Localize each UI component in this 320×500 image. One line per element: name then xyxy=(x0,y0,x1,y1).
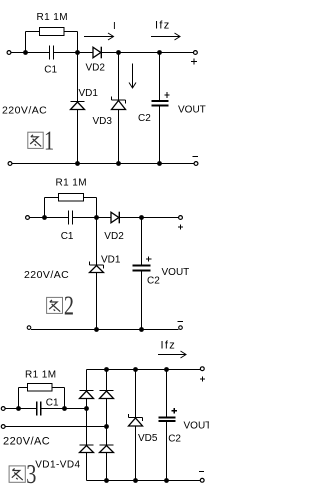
current arrow Ifz (circuit 3) xyxy=(158,351,186,358)
wire: top rail between C1 and VD2 (circuit 2) xyxy=(73,217,111,219)
terminal: top-right + output (circuit 2) xyxy=(179,216,183,220)
svg-text:VD2: VD2 xyxy=(104,231,124,242)
terminal: + output (circuit 3) xyxy=(200,367,204,371)
wire: input rail 2 (circuit 3) xyxy=(5,426,106,428)
svg-text:VD3: VD3 xyxy=(93,116,113,127)
node: C2 bottom on rail (circuit 3) xyxy=(164,478,169,483)
svg-text:1: 1 xyxy=(44,127,54,156)
label minus (circuit 2 output) xyxy=(178,321,183,323)
svg-text:VD1: VD1 xyxy=(79,88,99,99)
capacitor C1 (circuit 2) xyxy=(69,211,73,225)
wire: R1 branch left stub (circuit 2) xyxy=(45,198,59,218)
node: bridge right column input (circuit 3) xyxy=(104,424,109,429)
svg-text:VOUT: VOUT xyxy=(162,267,190,278)
terminal: AC input line 2 (circuit 3) xyxy=(1,425,5,429)
diode VD2 (circuit 1) xyxy=(93,47,101,59)
bridge diode VD2 top-right (circuit 3) xyxy=(100,370,114,427)
wire: top rail between C1 and VD2 (circuit 1) xyxy=(54,52,93,54)
svg-text:C1: C1 xyxy=(46,398,59,409)
svg-text:2: 2 xyxy=(64,292,74,321)
zener diode VD3 (circuit 1) xyxy=(112,53,126,164)
node A: R1/C1 left junction (circuit 1) xyxy=(23,50,28,55)
svg-text:Ifz: Ifz xyxy=(161,340,177,352)
current arrow Ifz (circuit 1) xyxy=(151,33,180,40)
terminal: bottom-right - output (circuit 2) xyxy=(179,326,183,330)
bridge diode VD3 bottom-left (circuit 3) xyxy=(80,445,94,481)
wire: top rail left segment (circuit 2) xyxy=(30,217,68,219)
svg-text:R1 1M: R1 1M xyxy=(25,370,56,381)
node: C2 bottom (circuit 1) xyxy=(157,161,162,166)
svg-text:R1 1M: R1 1M xyxy=(37,12,68,23)
node: C2 on top rail (circuit 3) xyxy=(164,367,169,372)
svg-text:I: I xyxy=(113,21,116,32)
bridge diode VD4 bottom-right (circuit 3) xyxy=(100,427,114,481)
svg-text:VOUT: VOUT xyxy=(184,421,210,432)
terminal: bottom-right - output (circuit 1) xyxy=(194,162,198,166)
wire: R1 branch right stub (circuit 2) xyxy=(84,198,97,218)
svg-text:C1: C1 xyxy=(61,231,74,242)
terminal: AC input line 1 (circuit 3) xyxy=(1,407,5,411)
wire: top output rail (circuit 3) xyxy=(87,369,201,371)
svg-text:Ifz: Ifz xyxy=(155,20,171,32)
wire: R1 branch left stub (circuit 1) xyxy=(26,32,40,53)
node: R1 right on rail 1 (circuit 3) xyxy=(62,406,67,411)
terminal: top-left AC input (circuit 2) xyxy=(26,216,30,220)
label + of C2 (circuit 3) xyxy=(172,408,177,413)
label + (circuit 2 output) xyxy=(178,224,183,229)
terminal: - output (circuit 3) xyxy=(200,478,204,482)
figure label 图2 xyxy=(47,297,63,313)
wire: R1 branch left stub (circuit 3) xyxy=(19,388,28,409)
resistor R1 (circuit 3) xyxy=(28,384,53,392)
node D: C2 junction (circuit 1) xyxy=(157,50,162,55)
resistor R1 (circuit 2) xyxy=(59,194,84,202)
node: bridge left column input (circuit 3) xyxy=(84,406,89,411)
node: bridge top-right column on top rail (circuit 3) xyxy=(104,367,109,372)
node: VD1 bottom (circuit 2) xyxy=(94,327,99,332)
terminal: top-right + output (circuit 1) xyxy=(194,51,198,55)
label + (circuit 3 output) xyxy=(200,376,205,381)
svg-text:VOUT: VOUT xyxy=(178,105,206,116)
node: R1 left on rail 1 (circuit 3) xyxy=(16,406,21,411)
terminal: bottom-left AC input (circuit 1) xyxy=(8,162,12,166)
label minus (circuit 3 output) xyxy=(199,471,204,473)
node: VD5 bottom on rail (circuit 3) xyxy=(133,478,138,483)
node: VD1 bottom (circuit 1) xyxy=(75,161,80,166)
wire: input rail 1 left (circuit 3) xyxy=(5,408,36,410)
svg-text:220V/AC: 220V/AC xyxy=(24,269,69,281)
wire: top rail right of VD2 (circuit 2) xyxy=(120,217,179,219)
wire: R1 branch right stub (circuit 1) xyxy=(64,32,78,53)
bridge diode VD1 top-left (circuit 3) xyxy=(80,370,94,409)
node C: VD3 junction (circuit 1) xyxy=(116,50,121,55)
terminal: bottom-left AC input (circuit 2) xyxy=(27,326,31,330)
capacitor C1 (circuit 3) xyxy=(37,402,41,416)
node: VD5 on top rail (circuit 3) xyxy=(133,367,138,372)
zener diode VD5 (circuit 3) xyxy=(129,370,143,481)
wire: bottom rail (circuit 1) xyxy=(12,163,194,165)
node B: VD1/VD2 junction (circuit 1) xyxy=(75,50,80,55)
node: VD4 bottom on rail (circuit 3) xyxy=(104,478,109,483)
diode VD1 (circuit 1) xyxy=(71,53,85,164)
wire: top rail right of VD2 (circuit 1) xyxy=(102,52,194,54)
label minus (circuit 1 output) xyxy=(193,156,199,158)
svg-text:VD5: VD5 xyxy=(138,433,158,444)
label + (circuit 1 output) xyxy=(191,59,197,65)
svg-text:C2: C2 xyxy=(168,434,181,445)
svg-text:3: 3 xyxy=(26,461,36,490)
svg-text:220V/AC: 220V/AC xyxy=(2,105,47,117)
svg-text:VD1: VD1 xyxy=(101,255,121,266)
zener diode VD1 (circuit 2) xyxy=(90,218,104,330)
label + of C2 (circuit 2) xyxy=(146,256,151,261)
svg-text:C2: C2 xyxy=(138,113,151,124)
wire: R1 branch right stub (circuit 3) xyxy=(52,388,65,409)
capacitor C2 electrolytic (circuit 3) xyxy=(159,370,176,481)
wire: bottom rail (circuit 3) xyxy=(87,480,201,482)
wire: bottom rail (circuit 2) xyxy=(31,329,179,331)
svg-text:C1: C1 xyxy=(44,65,57,76)
capacitor C1 (circuit 1) xyxy=(50,46,54,60)
svg-text:220V/AC: 220V/AC xyxy=(3,436,50,448)
wire: top rail left segment (circuit 1) xyxy=(11,52,49,54)
node: C2 bottom (circuit 2) xyxy=(139,327,144,332)
node: VD3 bottom (circuit 1) xyxy=(116,161,121,166)
diode VD2 (circuit 2) xyxy=(111,212,119,224)
svg-text:VD1-VD4: VD1-VD4 xyxy=(35,460,80,471)
terminal: top-left AC input (circuit 1) xyxy=(7,51,11,55)
current arrow down (circuit 1) xyxy=(129,64,136,89)
wire: bridge left column through rail2 (circuit 3) xyxy=(86,409,88,446)
node A: R1/C1 left junction (circuit 2) xyxy=(42,215,47,220)
node C: C2 junction (circuit 2) xyxy=(139,215,144,220)
resistor R1 (circuit 1) xyxy=(40,28,65,36)
label + of C2 (circuit 1) xyxy=(164,92,169,98)
figure label 图3 xyxy=(9,466,25,482)
capacitor C2 electrolytic (circuit 1) xyxy=(152,53,169,164)
svg-text:VD2: VD2 xyxy=(86,63,106,74)
wire: input rail 1 right (circuit 3) xyxy=(42,408,87,410)
current arrow I (circuit 1) xyxy=(84,33,114,40)
svg-text:C2: C2 xyxy=(147,276,160,287)
capacitor C2 electrolytic (circuit 2) xyxy=(133,218,151,330)
svg-text:R1 1M: R1 1M xyxy=(56,178,87,189)
figure label 图1 xyxy=(28,132,43,148)
node B: VD1/VD2 junction (circuit 2) xyxy=(94,215,99,220)
